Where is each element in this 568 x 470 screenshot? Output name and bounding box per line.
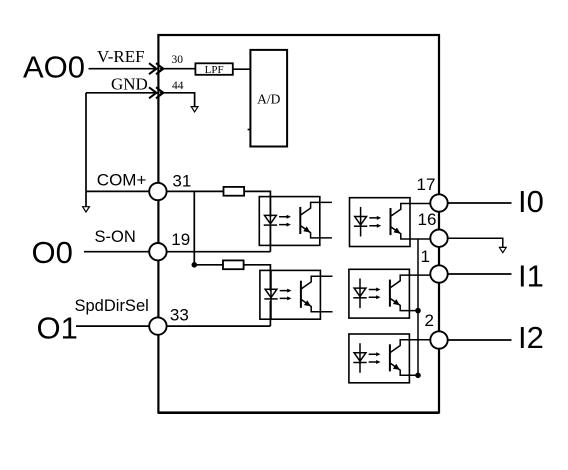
wire pin 1 to I1	[448, 273, 511, 275]
optocoupler U5 (output channel I1)	[349, 269, 430, 318]
wire pin 16 to external ground	[448, 238, 502, 247]
resistor R2	[223, 260, 244, 269]
pin 16 terminal circle	[430, 230, 447, 247]
pin 31 terminal circle	[149, 183, 166, 200]
svg-text:17: 17	[417, 175, 436, 194]
svg-text:2: 2	[425, 311, 434, 330]
svg-text:COM+: COM+	[97, 170, 147, 189]
wire pin 17 to I0	[448, 202, 511, 204]
wire R1 to opto U2 LED anode	[244, 191, 270, 217]
svg-text:LPF: LPF	[205, 64, 224, 76]
svg-text:S-ON: S-ON	[95, 228, 136, 246]
svg-text:AO0: AO0	[23, 50, 85, 85]
junction dot emitter U5	[415, 308, 421, 314]
pin 2 terminal circle	[430, 331, 447, 348]
wire O1 to pin 33	[76, 325, 149, 327]
svg-text:A/D: A/D	[257, 92, 281, 107]
svg-text:SpdDirSel: SpdDirSel	[75, 297, 149, 315]
optocoupler U3 (input channel SpdDirSel)	[260, 270, 333, 319]
pin 19 terminal circle	[149, 243, 166, 260]
wire pin 19 to opto U2 LED cathode	[167, 225, 270, 251]
svg-text:19: 19	[171, 230, 190, 249]
IC outline box U1	[158, 35, 439, 413]
wire emitter bus	[417, 239, 419, 375]
junction dot	[192, 262, 198, 268]
pin 33 terminal circle	[149, 317, 166, 334]
svg-text:I2: I2	[518, 320, 544, 355]
wire LPF to A/D	[233, 68, 251, 70]
wire O0 to pin 19	[84, 251, 149, 253]
svg-text:GND: GND	[111, 75, 148, 94]
stub tick on A/D left edge	[248, 129, 251, 131]
ground arrow at pin 16	[499, 247, 506, 252]
ground arrow at pin 44	[191, 107, 198, 112]
svg-text:44: 44	[172, 80, 184, 92]
wire GND branch down to external ground	[85, 93, 87, 207]
wire GND to pin 44	[86, 92, 160, 94]
pin 1 terminal circle	[430, 265, 447, 282]
optocoupler U6 (output channel I2)	[349, 334, 430, 383]
resistor R1	[224, 187, 245, 196]
svg-text:V-REF: V-REF	[97, 47, 145, 66]
svg-text:I1: I1	[518, 258, 544, 293]
wire V-REF from AO0 to pin 30	[89, 68, 160, 70]
svg-text:1: 1	[421, 247, 430, 266]
svg-text:O1: O1	[37, 311, 78, 346]
A/D converter block	[250, 50, 287, 147]
svg-text:31: 31	[172, 171, 191, 190]
LPF block	[195, 63, 232, 76]
pin 30 chevron connector	[149, 63, 163, 74]
wire pin 2 to I2	[448, 339, 511, 341]
svg-text:30: 30	[172, 54, 184, 66]
ground arrow left	[83, 207, 90, 212]
svg-text:33: 33	[170, 305, 189, 324]
pin 44 chevron connector	[149, 87, 163, 98]
svg-text:16: 16	[418, 210, 437, 229]
wire R2 to opto U3 LED anode	[244, 265, 271, 291]
svg-text:O0: O0	[32, 235, 73, 270]
wire pin 33 to opto U3 LED cathode	[167, 301, 270, 326]
wire COM+	[86, 190, 148, 192]
svg-text:I0: I0	[518, 184, 544, 219]
wire junction to resistor R2	[194, 264, 223, 266]
pin 17 terminal circle	[430, 194, 447, 211]
junction dot emitter U6	[415, 373, 421, 379]
optocoupler U2 (input channel S-ON)	[259, 197, 332, 246]
wire pin 30 to LPF	[160, 68, 195, 70]
optocoupler U4 (output channel I0)	[350, 198, 430, 247]
wire pin 44 to internal ground	[160, 93, 195, 107]
wire pin 31 to resistor R1	[167, 190, 223, 192]
wire COM+ branch down	[193, 191, 195, 264]
